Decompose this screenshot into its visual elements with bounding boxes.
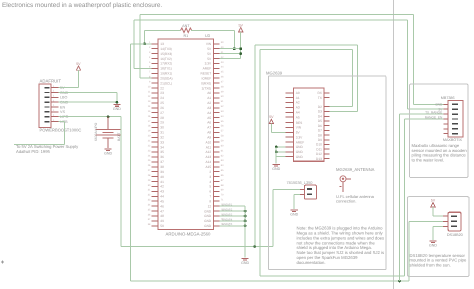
svg-text:20(SDA): 20(SDA) [160,76,172,80]
svg-text:38: 38 [160,165,164,169]
svg-text:LBO: LBO [60,96,68,100]
svg-text:MG2639: MG2639 [266,71,283,76]
svg-text:31: 31 [160,131,164,135]
svg-text:27: 27 [160,111,164,115]
frame DS18B20 sensor [407,197,469,277]
svg-text:MB7386: MB7386 [441,96,455,100]
wire row1 left [131,43,152,45]
svg-text:A13: A13 [206,155,212,159]
wire D2 loop top [260,48,352,50]
origin mark [1,261,4,264]
wire R1 left [145,29,181,31]
junction dot 5V row3 [239,52,242,55]
svg-text:D4: D4 [318,115,322,119]
svg-text:GND@3: GND@3 [222,213,233,216]
antenna connector X1 [339,176,351,192]
pins of J1 [51,85,58,122]
svg-text:46: 46 [160,204,164,208]
wire 5V row2 [220,48,241,50]
svg-text:GND: GND [296,145,304,149]
svg-text:50: 50 [160,224,164,228]
wire 5V row3 [220,53,241,55]
junction dot loop D3 [253,245,256,248]
wire GND pin4 [58,101,117,103]
ground symbol battery [104,149,112,156]
svg-text:GND@2: GND@2 [222,208,233,211]
svg-text:VS: VS [60,110,65,114]
svg-text:D2: D2 [318,105,322,109]
svg-text:D12: D12 [316,152,322,156]
svg-text:A0: A0 [296,91,300,95]
svg-text:0(RX0): 0(RX0) [201,81,211,85]
wire 5V stem [240,32,242,59]
svg-text:D3: D3 [318,110,322,114]
svg-text:28: 28 [160,116,164,120]
svg-text:37: 37 [160,160,164,164]
svg-text:43: 43 [160,190,164,194]
module U4 MG2639 [294,88,324,161]
svg-text:12: 12 [208,204,212,208]
wire GND row14 [276,156,285,158]
svg-text:4: 4 [209,180,211,184]
wire 5V pin to supply [58,70,78,87]
svg-text:GND: GND [204,219,212,223]
svg-text:documentation.: documentation. [297,260,326,265]
wire GND pin2 [58,91,117,93]
svg-text:35: 35 [160,150,164,154]
svg-text:18(TX1): 18(TX1) [160,67,172,71]
svg-text:POWERBOOST1000C: POWERBOOST1000C [40,128,82,133]
wire RANGE_EN riser [404,119,406,276]
svg-text:D5: D5 [318,119,322,123]
wire RANGE_EN to pin [405,118,444,120]
wire battery rail bottom [121,245,273,247]
svg-text:32: 32 [160,135,164,139]
svg-text:RANGE_EN: RANGE_EN [425,115,443,119]
pins of U3 right [213,41,224,226]
svg-text:45: 45 [160,199,164,203]
svg-text:22: 22 [160,86,164,90]
svg-text:A12: A12 [206,150,212,154]
pin labels MB7386 [425,102,443,119]
svg-text:D13: D13 [316,157,322,161]
wire D2 loop down [351,49,353,106]
wire LIPO pin to battery and right [58,116,121,118]
svg-text:A15: A15 [206,165,212,169]
svg-text:A3: A3 [207,106,211,110]
svg-text:A9: A9 [207,135,211,139]
wire GND vertical arduino [244,206,246,257]
svg-text:to the water level.: to the water level. [412,158,445,163]
power flag 5V P3 [269,115,274,123]
wire riser to JST [272,190,274,247]
svg-text:TX_RANGE: TX_RANGE [425,111,442,115]
junction dot R1 5V row [233,47,236,50]
sensor U6 DS18B20 [447,212,463,237]
ground symbol near powerboost [113,105,121,112]
svg-text:GND: GND [241,261,249,265]
svg-text:47: 47 [160,209,164,213]
svg-text:41: 41 [160,180,164,184]
wire GND vertical MG [275,147,277,164]
svg-text:DS18B20: DS18B20 [447,233,463,237]
svg-text:3.3V: 3.3V [205,62,212,66]
wire J2 pin2 [294,195,300,209]
svg-text:39: 39 [160,170,164,174]
wire R1 right [191,29,234,31]
svg-text:A0: A0 [207,91,211,95]
junction dot GND [116,101,119,104]
svg-text:GND: GND [272,167,280,171]
svg-text:A14: A14 [206,160,212,164]
svg-text:6: 6 [209,190,211,194]
svg-text:GND: GND [296,155,304,159]
junction dot 5V row2 [239,47,242,50]
svg-text:MG2639_ANTENNA: MG2639_ANTENNA [336,167,375,172]
resistor R1 ANT [181,24,192,38]
ground symbol DS18B20 [429,241,437,248]
svg-text:shielded from the sun.: shielded from the sun. [410,262,451,267]
svg-text:D6: D6 [318,124,322,128]
svg-text:A5: A5 [207,116,211,120]
svg-text:A1: A1 [296,96,300,100]
svg-text:RES: RES [296,121,303,125]
wire GND row12 [276,146,285,148]
svg-text:A3: A3 [296,106,300,110]
svg-text:33: 33 [160,140,164,144]
svg-text:48: 48 [160,214,164,218]
svg-text:GND: GND [113,107,121,111]
note antenna [336,194,375,204]
svg-text:GND: GND [104,151,112,155]
svg-text:25: 25 [160,101,164,105]
wire DS18B20 data riser [408,221,410,281]
frame MB7386 sensor [410,84,468,178]
wire TX_RANGE riser [399,114,401,281]
wire R1 left down to pin row1 [144,30,146,43]
note MG2639 shield [297,226,385,265]
svg-text:D10: D10 [316,143,322,147]
svg-text:ADAFRUIT: ADAFRUIT [40,79,62,84]
svg-text:36: 36 [160,155,164,159]
connector U5 MB7386 [448,100,463,137]
svg-text:A6: A6 [207,121,211,125]
svg-text:15(RX3): 15(RX3) [160,52,172,56]
svg-text:GND@1: GND@1 [222,204,233,207]
junction dot TX_RANGE [398,280,401,283]
pins of U3 left [148,41,158,226]
svg-text:U3: U3 [205,33,210,38]
note power supply [16,144,79,154]
pins of U4 right [324,93,330,159]
wire 5V to MG2639 [271,123,285,132]
power flag 5V P1 [76,62,81,70]
svg-text:29: 29 [160,121,164,125]
note DS18B20 [410,253,467,267]
svg-text:40: 40 [160,175,164,179]
note MB7386 [412,143,468,163]
svg-text:5V: 5V [269,115,274,119]
svg-text:A1: A1 [207,96,211,100]
svg-text:13: 13 [160,42,164,46]
svg-text:Adafruit PID: 1995: Adafruit PID: 1995 [16,149,51,154]
svg-text:VIN: VIN [296,126,302,130]
junction dot battery top [107,115,110,118]
svg-text:GND: GND [296,150,304,154]
wire 5V row4 [220,58,241,60]
svg-text:GND: GND [204,224,212,228]
svg-text:A2: A2 [296,101,300,105]
pins of U5 [443,104,448,133]
svg-text:EN: EN [60,105,65,109]
svg-text:GND@4: GND@4 [222,218,233,221]
svg-text:Electronics mounted in a weath: Electronics mounted in a weatherproof pl… [2,2,162,9]
svg-text:19(RX1): 19(RX1) [160,72,172,76]
svg-text:R1: R1 [183,34,188,38]
pins of U4 left [286,93,294,157]
svg-text:42: 42 [160,185,164,189]
ground symbol MG2639 [272,164,280,171]
svg-text:16(TX2): 16(TX2) [160,57,172,61]
svg-text:7815036_L350: 7815036_L350 [287,180,314,185]
svg-text:A11: A11 [206,145,212,149]
wire to JST pin 1 [273,189,300,191]
svg-text:44: 44 [160,195,164,199]
wire R1 right down [233,30,235,48]
svg-text:2: 2 [209,170,211,174]
svg-text:BATT: BATT [117,133,121,141]
wire row1 down [130,44,132,281]
svg-text:D9: D9 [318,138,322,142]
svg-text:17(RX2): 17(RX2) [160,62,172,66]
svg-text:A7: A7 [207,126,211,130]
wire net TX3 top rail [140,14,444,104]
svg-text:7: 7 [209,195,211,199]
ground symbol JST [290,210,298,217]
svg-text:IOREF: IOREF [201,76,211,80]
frame MG2639 shield [268,76,386,270]
pins of U6 [443,216,448,226]
wire D3 loop down [357,45,359,112]
battery BATT 6600A LIPO [94,117,121,149]
svg-text:GND: GND [290,212,298,216]
svg-text:23: 23 [160,91,164,95]
svg-text:AREF: AREF [296,140,305,144]
pins of J2 [300,190,305,195]
power flag 5V P2 [238,23,243,31]
svg-text:30: 30 [160,126,164,130]
svg-text:5: 5 [209,185,211,189]
svg-text:24: 24 [160,96,164,100]
svg-text:ANT: ANT [182,24,190,28]
wire net RX3 second rail [134,20,443,109]
power flag 5V P4 [431,198,436,206]
svg-text:GND@5: GND@5 [222,223,233,226]
wire bottom rail TX_RANGE [131,280,410,282]
svg-text:49: 49 [160,219,164,223]
sheet frame line [393,0,395,289]
wire D2 riser [259,49,261,276]
svg-text:VIN: VIN [206,42,212,46]
connector J2 battery JST [287,180,317,199]
svg-text:D8: D8 [318,133,322,137]
svg-text:D7: D7 [318,129,322,133]
wire 5V DS18B20 [433,207,443,216]
junction dot row1 [143,42,146,45]
svg-text:3.3V: 3.3V [296,135,303,139]
svg-text:5V: 5V [76,62,81,66]
svg-text:GND: GND [204,214,212,218]
svg-text:MAXBOTIX: MAXBOTIX [443,138,463,142]
svg-text:A4: A4 [207,111,211,115]
wire DS18B20 GND [433,226,443,240]
wire bottom rail RANGE_EN [260,275,405,277]
wire GND rows arduino [220,204,246,227]
connector J1 ADAFRUIT POWERBOOST1000C [39,79,82,133]
svg-text:A2: A2 [207,101,211,105]
wire D3 to pin [330,110,358,112]
wire USB pin to power note [14,122,65,145]
svg-text:21(SCL): 21(SCL) [160,81,172,85]
junction dots GND rows [244,210,247,228]
svg-text:RESET: RESET [201,72,212,76]
wire D3 loop top [255,44,358,46]
svg-text:connection.: connection. [336,198,356,203]
svg-text:26: 26 [160,106,164,110]
svg-text:A10: A10 [206,140,212,144]
wire D3 riser left [254,45,256,247]
wire D2 to pin [330,106,353,108]
svg-text:A4: A4 [296,110,300,114]
ground symbol arduino [241,258,249,265]
svg-text:8: 8 [209,199,211,203]
svg-text:D11: D11 [316,147,322,151]
svg-text:AREF: AREF [203,67,212,71]
junction dots MG GND [275,146,278,154]
wire DS18B20 data to pin [409,220,443,222]
svg-text:A8: A8 [207,131,211,135]
svg-text:5V: 5V [431,198,436,202]
svg-text:6600A LIPO: 6600A LIPO [94,122,98,141]
wire battery rail down [120,117,122,247]
svg-text:GND: GND [435,102,443,106]
svg-text:5V: 5V [238,23,243,27]
wire TX_RANGE to pin [400,113,444,115]
svg-text:ARDUINO-MEGA-2560: ARDUINO-MEGA-2560 [166,231,211,236]
svg-text:3: 3 [209,175,211,179]
arduino U3 ARDUINO-MEGA-2560 [158,33,213,236]
svg-text:GND: GND [204,209,212,213]
svg-text:14(TX3): 14(TX3) [160,47,172,51]
wire GND vertical [116,92,118,103]
svg-text:34: 34 [160,145,164,149]
svg-text:A5: A5 [296,115,300,119]
wire GND row13 [276,151,285,153]
svg-text:GND: GND [429,243,437,247]
svg-text:1(TX0): 1(TX0) [201,86,211,90]
